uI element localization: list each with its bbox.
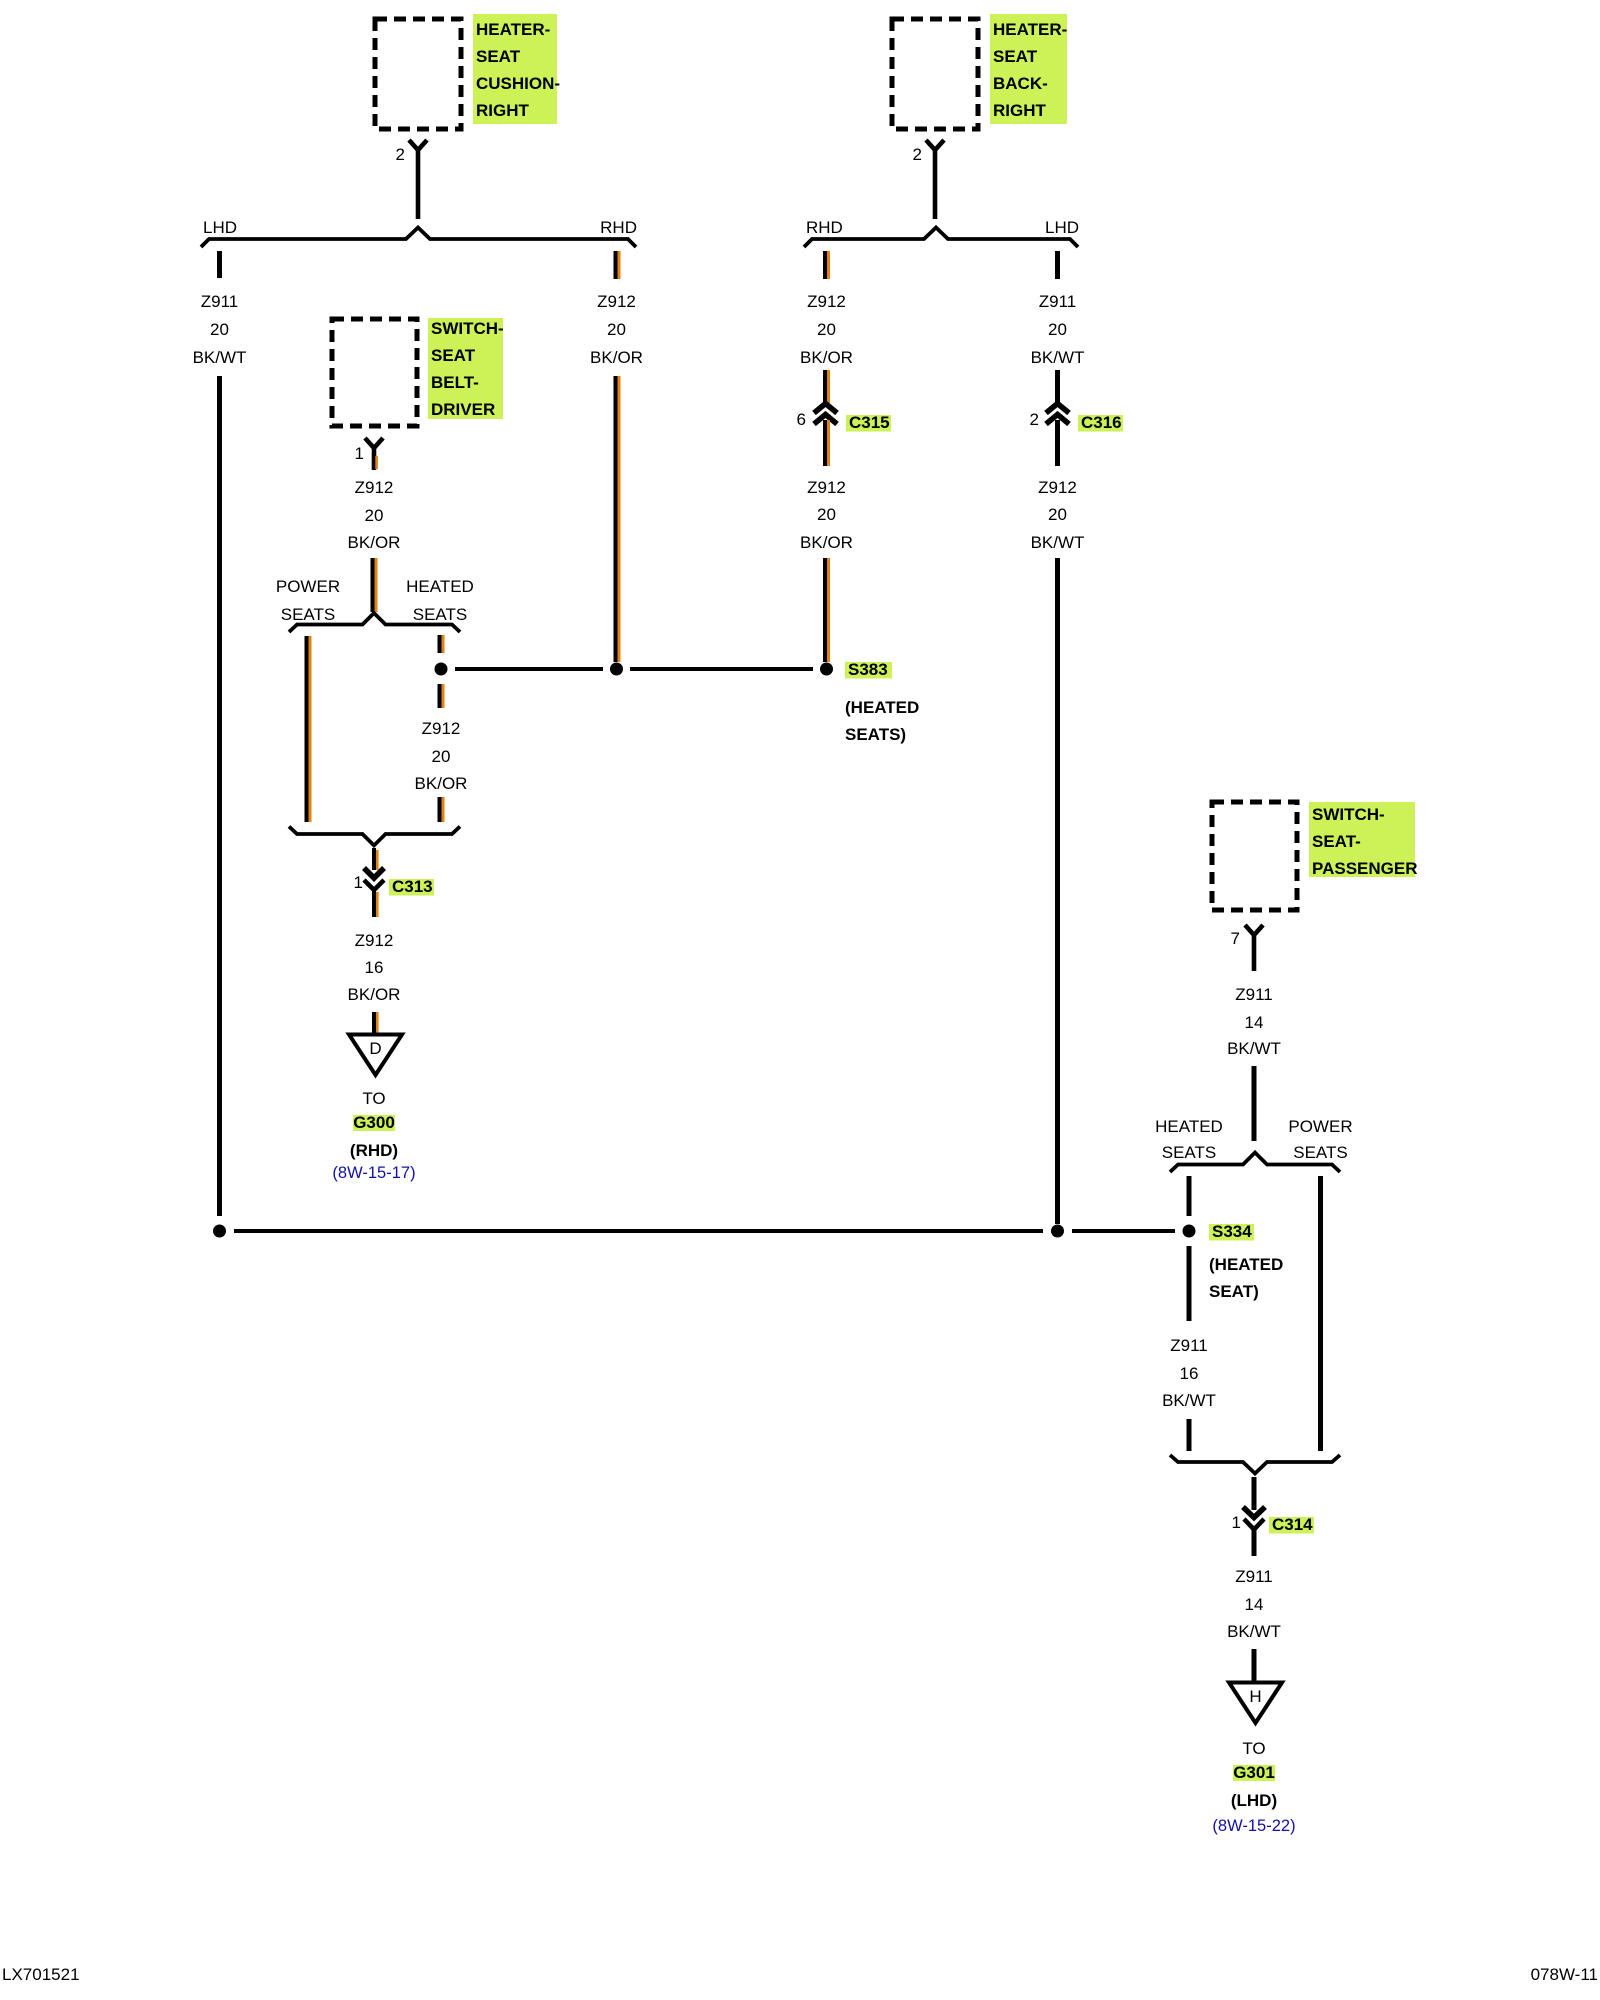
svg-text:Z912: Z912 xyxy=(355,931,394,950)
wire Z912 stub xyxy=(823,251,830,279)
svg-text:2: 2 xyxy=(913,145,922,164)
connector C314 arrow xyxy=(1243,1507,1265,1518)
svg-text:SEAT: SEAT xyxy=(993,47,1038,66)
POWER SEATS label xyxy=(1288,1117,1352,1162)
main bus wire right xyxy=(1072,1229,1175,1233)
connector C316 chevrons xyxy=(1046,404,1069,425)
svg-text:SEATS: SEATS xyxy=(1293,1143,1347,1162)
svg-text:16: 16 xyxy=(1180,1364,1199,1383)
label Z912 20 BK/OR xyxy=(800,292,853,367)
svg-text:HEATER-: HEATER- xyxy=(993,20,1067,39)
svg-text:SEAT: SEAT xyxy=(476,47,521,66)
wire below C316 xyxy=(1055,420,1060,466)
svg-text:(LHD): (LHD) xyxy=(1231,1791,1277,1810)
wire Z912 xyxy=(823,370,830,403)
wire below switch xyxy=(372,448,377,470)
TO G301 (LHD) labels xyxy=(1212,1739,1295,1835)
svg-text:SEATS: SEATS xyxy=(281,605,335,624)
connector Y pin 2 xyxy=(409,140,427,150)
label Z911 14 BK/WT xyxy=(1227,985,1281,1058)
C315 label xyxy=(846,413,891,432)
switch seat passenger: label xyxy=(1309,802,1418,878)
svg-text:20: 20 xyxy=(817,320,836,339)
brace split RHD/LHD xyxy=(804,228,1078,248)
S383 label xyxy=(845,660,919,744)
svg-text:S334: S334 xyxy=(1212,1222,1252,1241)
svg-text:D: D xyxy=(369,1039,381,1058)
label Z912 16 BK/OR xyxy=(348,931,401,1004)
svg-text:Z912: Z912 xyxy=(807,478,846,497)
svg-text:20: 20 xyxy=(1048,320,1067,339)
wire to G301 xyxy=(1252,1649,1257,1681)
wire heated seats branch seg1 xyxy=(438,635,445,653)
svg-text:BK/WT: BK/WT xyxy=(1031,533,1085,552)
svg-text:TO: TO xyxy=(362,1089,385,1108)
wire below C313 xyxy=(372,890,379,917)
wire heated seats seg3 xyxy=(1187,1419,1192,1451)
wire heated seats seg1 xyxy=(1187,1176,1192,1216)
svg-text:SEAT-: SEAT- xyxy=(1312,832,1361,851)
C313 label xyxy=(389,877,434,896)
wire Z912 long LHD xyxy=(1055,558,1060,1224)
svg-text:CUSHION-: CUSHION- xyxy=(476,74,560,93)
connector Y pin 2 xyxy=(926,140,944,150)
connector C313 arrow xyxy=(364,868,384,878)
svg-text:Z912: Z912 xyxy=(422,719,461,738)
svg-text:LHD: LHD xyxy=(203,218,237,237)
wire power seats branch xyxy=(1318,1176,1323,1451)
junction node left xyxy=(213,1225,226,1238)
svg-text:20: 20 xyxy=(432,747,451,766)
wire Z912 RHD long xyxy=(614,376,621,662)
svg-text:Z911: Z911 xyxy=(1235,985,1273,1004)
svg-text:Z911: Z911 xyxy=(1039,292,1077,311)
S334 label xyxy=(1209,1222,1283,1301)
wire from heater cushion xyxy=(416,150,421,219)
svg-text:S383: S383 xyxy=(848,660,888,679)
label Z912 20 BK/OR xyxy=(348,478,401,552)
svg-text:SWITCH-: SWITCH- xyxy=(431,319,504,338)
svg-text:(8W-15-22): (8W-15-22) xyxy=(1212,1817,1295,1835)
svg-text:20: 20 xyxy=(607,320,626,339)
wire Z911 stub left xyxy=(217,251,222,278)
svg-text:C313: C313 xyxy=(392,877,433,896)
heater seat cushion right: label xyxy=(473,14,560,124)
svg-text:C314: C314 xyxy=(1272,1515,1313,1534)
svg-text:PASSENGER: PASSENGER xyxy=(1312,859,1418,878)
switch seat belt driver: dashed box xyxy=(332,319,417,426)
label Z912 20 BK/OR xyxy=(415,719,468,793)
brace split heated/power xyxy=(1170,1153,1340,1173)
svg-text:BK/OR: BK/OR xyxy=(348,533,401,552)
svg-text:20: 20 xyxy=(817,505,836,524)
svg-text:Z912: Z912 xyxy=(597,292,636,311)
heater seat back right: dashed box xyxy=(892,19,978,129)
svg-text:SEATS): SEATS) xyxy=(845,725,906,744)
wire into C314 xyxy=(1252,1477,1257,1510)
label Z912 20 BK/OR xyxy=(590,292,643,367)
svg-text:HEATED: HEATED xyxy=(1155,1117,1223,1136)
brace split LHD/RHD xyxy=(201,228,636,248)
svg-text:14: 14 xyxy=(1245,1013,1264,1032)
S383 bus wire right xyxy=(630,667,813,671)
svg-text:Z911: Z911 xyxy=(1170,1336,1208,1355)
svg-text:(HEATED: (HEATED xyxy=(1209,1255,1283,1274)
svg-text:C316: C316 xyxy=(1081,413,1122,432)
HEATED SEATS label xyxy=(406,577,474,624)
svg-text:LHD: LHD xyxy=(1045,218,1079,237)
svg-text:SEATS: SEATS xyxy=(1162,1143,1216,1162)
svg-text:1: 1 xyxy=(354,873,363,892)
wire Z912 stub RHD xyxy=(614,251,621,279)
label Z912 20 BK/OR xyxy=(800,478,853,552)
svg-text:TO: TO xyxy=(1242,1739,1265,1758)
svg-text:HEATED: HEATED xyxy=(406,577,474,596)
svg-text:BK/WT: BK/WT xyxy=(1031,348,1085,367)
C316 label xyxy=(1078,413,1123,432)
svg-text:Z911: Z911 xyxy=(201,292,239,311)
svg-text:RHD: RHD xyxy=(600,218,637,237)
svg-text:BK/OR: BK/OR xyxy=(590,348,643,367)
svg-text:BK/WT: BK/WT xyxy=(1227,1622,1281,1641)
svg-text:16: 16 xyxy=(365,958,384,977)
brace merge to C313 xyxy=(289,827,460,846)
wire into C313 xyxy=(372,848,379,870)
svg-text:DRIVER: DRIVER xyxy=(431,400,495,419)
label Z912 20 BK/WT xyxy=(1031,478,1085,552)
svg-text:SWITCH-: SWITCH- xyxy=(1312,805,1385,824)
svg-text:HEATER-: HEATER- xyxy=(476,20,550,39)
svg-text:LX701521: LX701521 xyxy=(2,1965,80,1984)
svg-text:BK/OR: BK/OR xyxy=(348,985,401,1004)
label Z911 14 BK/WT xyxy=(1227,1567,1281,1641)
wire to G300 xyxy=(372,1012,379,1036)
svg-text:20: 20 xyxy=(365,506,384,525)
wire power seats branch xyxy=(305,636,312,822)
main bus wire left xyxy=(234,1229,1043,1233)
svg-text:078W-11: 078W-11 xyxy=(1531,1965,1598,1984)
brace split power/heated xyxy=(289,613,460,632)
wire Z911 xyxy=(1252,1066,1257,1141)
connector C315 chevrons xyxy=(814,404,837,425)
C314 label xyxy=(1269,1515,1314,1534)
splice S334 node xyxy=(1183,1225,1196,1238)
wire from heater back xyxy=(933,150,938,219)
POWER SEATS label xyxy=(276,577,340,624)
svg-text:2: 2 xyxy=(1030,410,1039,429)
junction node xyxy=(435,663,448,676)
S383 bus wire left xyxy=(455,667,603,671)
svg-text:BK/OR: BK/OR xyxy=(800,533,853,552)
svg-text:BK/WT: BK/WT xyxy=(1227,1039,1281,1058)
wire below C315 xyxy=(823,420,830,466)
svg-text:RIGHT: RIGHT xyxy=(993,101,1047,120)
wire Z912 to brace xyxy=(371,558,378,612)
wire heated seats branch seg2 xyxy=(438,684,445,708)
svg-text:(HEATED: (HEATED xyxy=(845,698,919,717)
svg-text:SEAT): SEAT) xyxy=(1209,1282,1259,1301)
svg-text:SEAT: SEAT xyxy=(431,346,476,365)
wire Z912 to S383 xyxy=(823,558,830,662)
svg-text:RIGHT: RIGHT xyxy=(476,101,530,120)
brace merge to C314 xyxy=(1170,1455,1340,1474)
svg-text:BK/WT: BK/WT xyxy=(1162,1391,1216,1410)
svg-text:2: 2 xyxy=(396,145,405,164)
svg-text:20: 20 xyxy=(210,320,229,339)
svg-text:BACK-: BACK- xyxy=(993,74,1048,93)
svg-text:14: 14 xyxy=(1245,1595,1264,1614)
svg-text:RHD: RHD xyxy=(806,218,843,237)
svg-text:H: H xyxy=(1249,1687,1261,1706)
svg-text:Z912: Z912 xyxy=(1038,478,1077,497)
HEATED SEATS label xyxy=(1155,1117,1223,1162)
svg-text:Z911: Z911 xyxy=(1235,1567,1273,1586)
svg-text:C315: C315 xyxy=(849,413,890,432)
connector C314 fork xyxy=(1244,1519,1264,1530)
wire Z911 long left xyxy=(217,376,222,1216)
svg-text:BK/OR: BK/OR xyxy=(800,348,853,367)
svg-text:(RHD): (RHD) xyxy=(350,1141,398,1160)
svg-text:SEATS: SEATS xyxy=(413,605,467,624)
svg-text:1: 1 xyxy=(1232,1513,1241,1532)
switch seat passenger: dashed box xyxy=(1212,802,1297,910)
TO G300 (RHD) labels xyxy=(332,1089,415,1182)
connector C313 fork xyxy=(364,880,384,890)
svg-text:6: 6 xyxy=(797,410,806,429)
junction node xyxy=(1051,1225,1064,1238)
wire heated seats branch seg3 xyxy=(438,797,445,822)
wire below C314 xyxy=(1252,1529,1257,1556)
svg-text:G300: G300 xyxy=(353,1113,395,1132)
connector Y pin 7 xyxy=(1245,925,1263,935)
svg-text:G301: G301 xyxy=(1233,1763,1275,1782)
splice S383 node xyxy=(820,663,833,676)
heater seat back right: label xyxy=(990,14,1067,124)
svg-text:7: 7 xyxy=(1231,929,1240,948)
svg-text:BELT-: BELT- xyxy=(431,373,479,392)
wire Z911 stub LHD xyxy=(1055,251,1060,279)
svg-text:Z912: Z912 xyxy=(807,292,846,311)
wire below switch passenger xyxy=(1252,935,1257,971)
svg-text:POWER: POWER xyxy=(1288,1117,1352,1136)
svg-text:BK/OR: BK/OR xyxy=(415,774,468,793)
label Z911 20 BK/WT xyxy=(193,292,247,367)
svg-text:Z912: Z912 xyxy=(355,478,394,497)
ground symbol H xyxy=(1229,1683,1282,1724)
svg-text:(8W-15-17): (8W-15-17) xyxy=(332,1164,415,1182)
switch seat belt driver: label xyxy=(428,318,504,419)
heater seat cushion right: dashed box xyxy=(375,19,461,129)
label Z911 20 BK/WT xyxy=(1031,292,1085,367)
wire heated seats seg2 xyxy=(1187,1246,1192,1321)
svg-text:BK/WT: BK/WT xyxy=(193,348,247,367)
ground symbol D xyxy=(349,1035,402,1076)
svg-text:POWER: POWER xyxy=(276,577,340,596)
connector Y pin 1 xyxy=(365,438,383,448)
svg-text:20: 20 xyxy=(1048,505,1067,524)
label Z911 16 BK/WT xyxy=(1162,1336,1216,1410)
wire Z911 xyxy=(1055,370,1060,403)
junction node mid xyxy=(610,663,623,676)
svg-text:1: 1 xyxy=(355,444,364,463)
